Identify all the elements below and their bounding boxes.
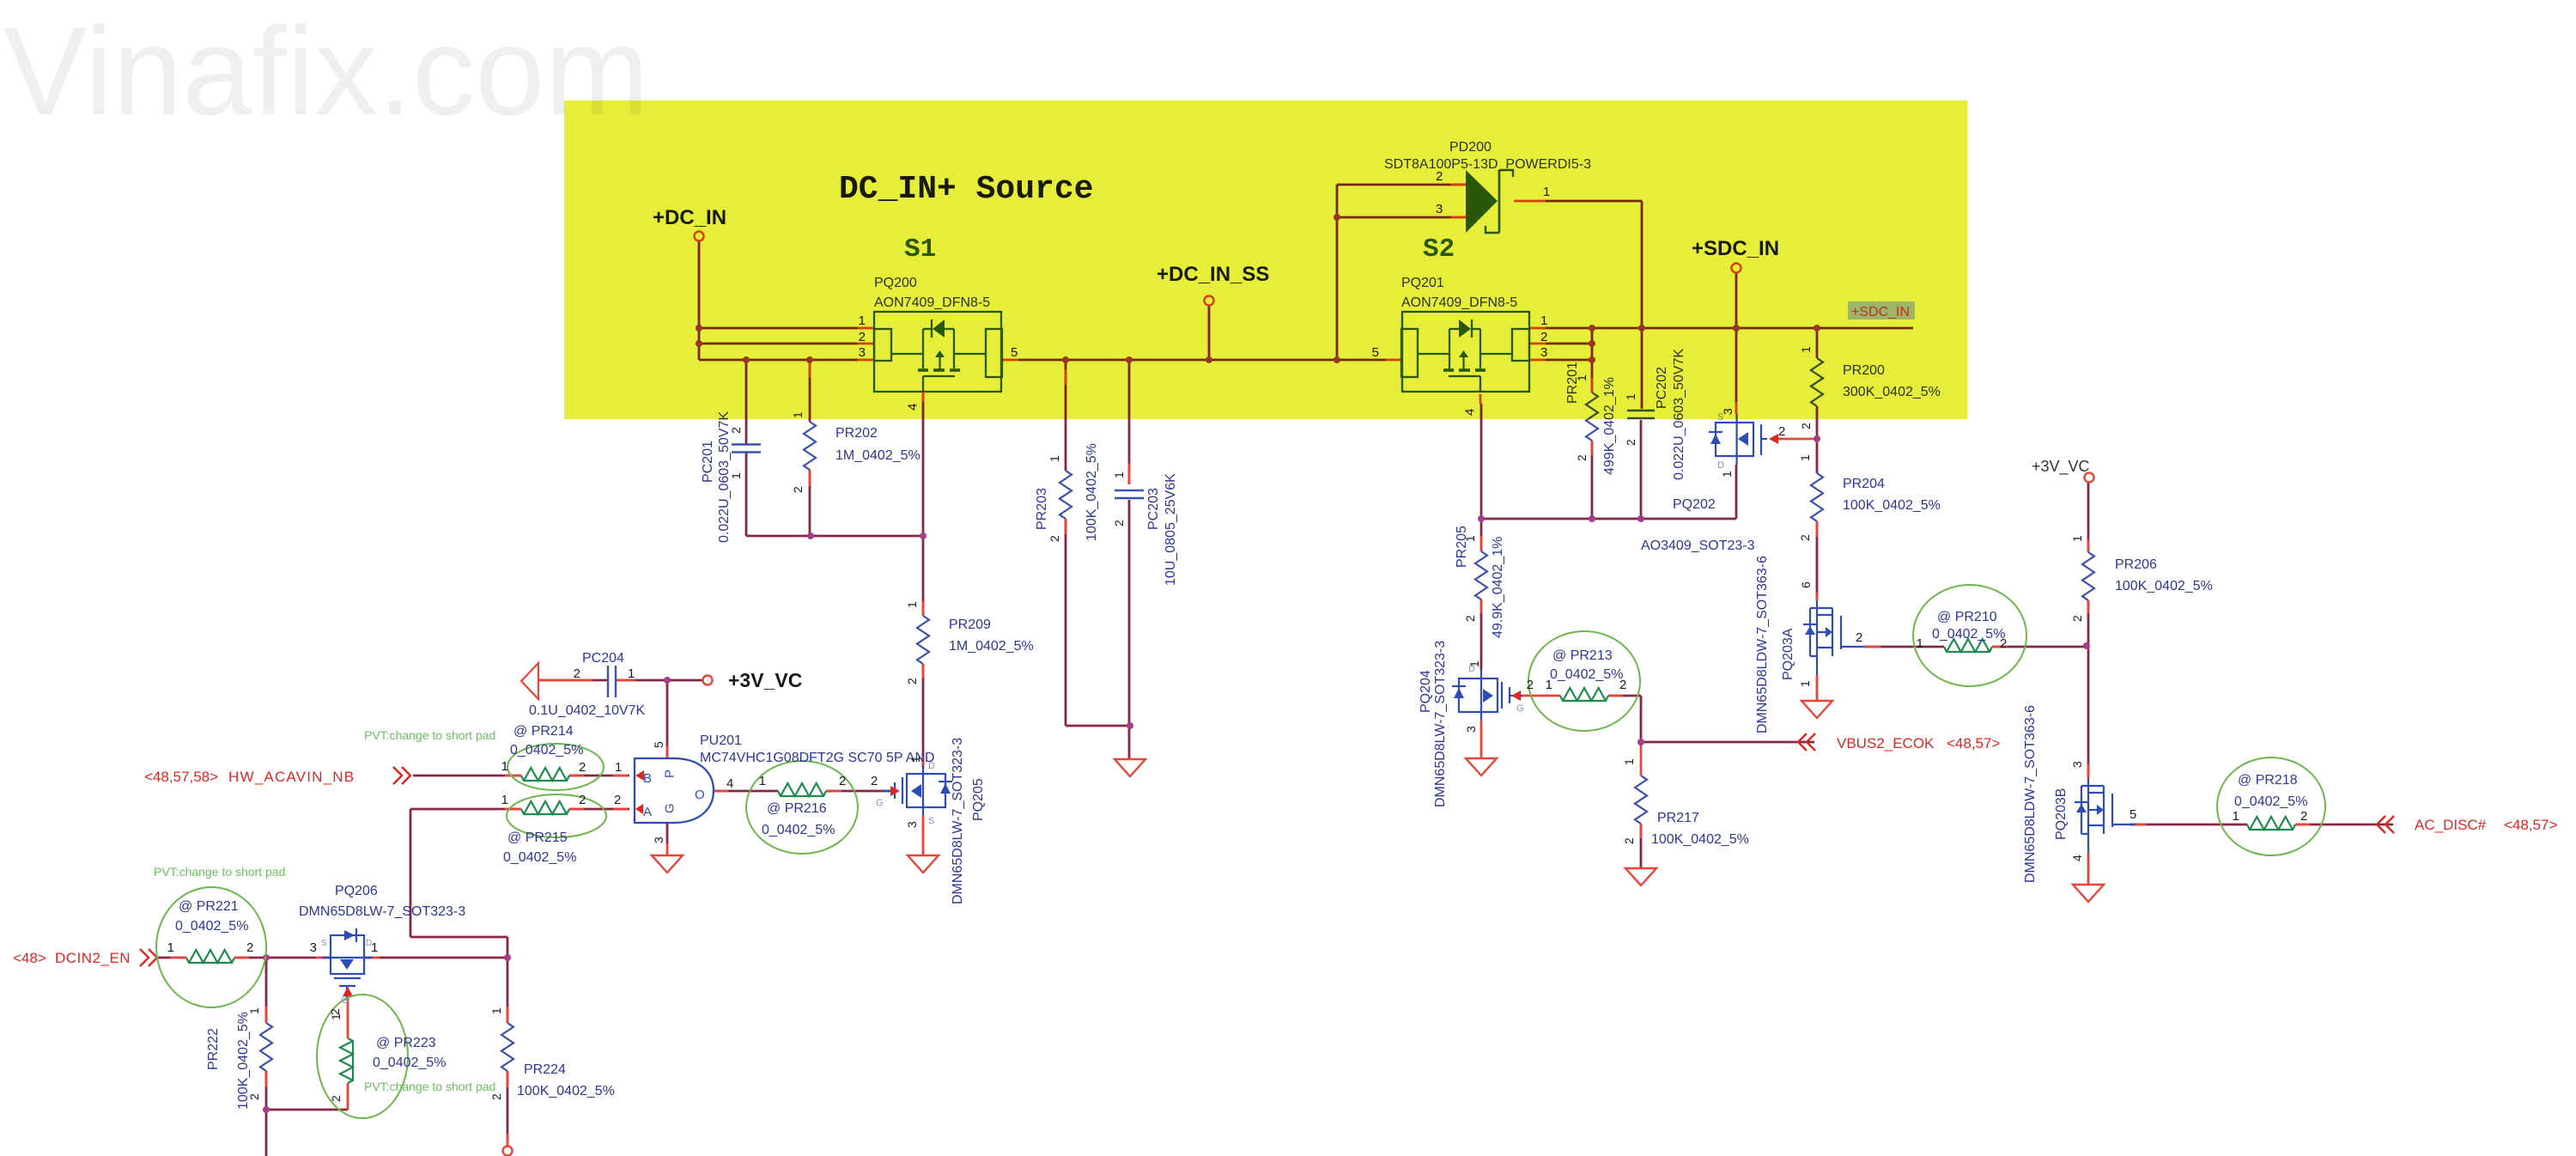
svg-text:PQ206: PQ206	[335, 884, 378, 898]
svg-text:HW_ACAVIN_NB: HW_ACAVIN_NB	[228, 769, 355, 785]
net flag chevron AC_DISC#	[2377, 816, 2394, 833]
svg-text:0_0402_5%: 0_0402_5%	[373, 1056, 446, 1070]
junction at 2116,382	[1814, 325, 1820, 332]
resistor PR201	[1586, 392, 1598, 441]
svg-text:PQ203B: PQ203B	[2054, 788, 2069, 840]
svg-text:100K_0402_5%: 100K_0402_5%	[1651, 832, 1749, 847]
svg-text:PC201: PC201	[701, 441, 715, 483]
wire PQ206 gate to PR223	[347, 991, 349, 1038]
svg-text:D: D	[366, 939, 372, 948]
port bottom PR224	[503, 1147, 513, 1156]
wire PQ201 right pins tie vertical	[1591, 328, 1594, 392]
junction at 814,382	[696, 325, 702, 332]
svg-text:2: 2	[329, 1095, 343, 1102]
svg-text:2: 2	[1527, 678, 1534, 692]
svg-text:5: 5	[2129, 807, 2136, 822]
svg-text:2: 2	[1778, 424, 1785, 439]
svg-text:DMN65D8LDW-7_SOT363-6: DMN65D8LDW-7_SOT363-6	[2023, 705, 2038, 883]
wire PU201 output to PR216	[714, 790, 778, 793]
svg-text:+3V_VC: +3V_VC	[728, 669, 802, 691]
junction at 1557,253	[1334, 214, 1340, 221]
junction at 2116,511	[1814, 435, 1820, 442]
wire PC202 bottom lead	[1640, 420, 1643, 519]
junction at 310,1292	[263, 1106, 270, 1113]
junction at 814,400	[696, 340, 702, 347]
junction at 1911,864	[1637, 739, 1644, 745]
svg-text:0_0402_5%: 0_0402_5%	[762, 823, 835, 837]
svg-text:1: 1	[1112, 472, 1126, 478]
svg-text:1: 1	[167, 940, 174, 955]
pin stub PQ200 pin4	[922, 392, 925, 402]
svg-text:P: P	[662, 770, 677, 778]
svg-text:PQ203A: PQ203A	[1781, 628, 1795, 680]
wire PQ204 source to ground	[1480, 721, 1483, 758]
svg-text:2: 2	[905, 678, 919, 684]
svg-text:DMN65D8LW-7_SOT323-3: DMN65D8LW-7_SOT323-3	[299, 904, 465, 919]
svg-text:S: S	[928, 816, 934, 826]
svg-text:S: S	[321, 939, 327, 948]
svg-text:D: D	[1717, 460, 1724, 471]
resistor PR221 0-ohm	[186, 958, 234, 963]
svg-text:PVT:change to short pad: PVT:change to short pad	[154, 865, 285, 879]
svg-text:2: 2	[839, 774, 846, 788]
svg-text:2: 2	[579, 760, 586, 775]
wire PD200 branch vertical	[1336, 185, 1339, 360]
svg-text:5: 5	[652, 741, 665, 748]
svg-text:100K_0402_5%: 100K_0402_5%	[1084, 443, 1099, 541]
and-gate PU201 MC74VHC1G08DFT2G	[635, 758, 714, 823]
svg-text:1: 1	[905, 601, 919, 608]
svg-text:@ PR216: @ PR216	[767, 801, 827, 816]
svg-text:0_0402_5%: 0_0402_5%	[1932, 627, 2005, 642]
resistor PR205	[1475, 551, 1487, 599]
svg-text:D: D	[928, 761, 935, 771]
svg-text:2: 2	[246, 940, 253, 955]
wire PQ201 pin3	[1529, 359, 1546, 362]
annotation ellipse PR216	[746, 761, 858, 854]
svg-text:<48,57,58>: <48,57,58>	[144, 769, 218, 785]
svg-text:G: G	[876, 798, 884, 808]
wire PD200 pin1 to +SDC_IN line	[1514, 200, 1546, 203]
svg-text:@ PR214: @ PR214	[513, 724, 574, 739]
wire PQ203B source to ground	[2087, 853, 2090, 885]
annotation ellipse PR221	[156, 887, 266, 1007]
net flag chevron DCIN2_EN	[140, 949, 157, 966]
wire PR217 leads	[1640, 742, 1643, 776]
svg-text:G: G	[341, 995, 349, 1006]
svg-text:O: O	[695, 788, 705, 802]
svg-text:1: 1	[329, 1013, 343, 1020]
svg-text:2: 2	[579, 793, 586, 807]
svg-text:1: 1	[1798, 454, 1812, 461]
wire PU201 pin5 riser	[666, 680, 669, 758]
svg-text:PU201: PU201	[700, 733, 742, 748]
wire PR215 to PU201 input A	[569, 808, 629, 811]
pin stubs PQ200 pins 1 2 3	[858, 327, 874, 330]
svg-text:DCIN2_EN: DCIN2_EN	[55, 950, 131, 966]
svg-text:0_0402_5%: 0_0402_5%	[2234, 794, 2307, 809]
svg-text:PR204: PR204	[1843, 477, 1885, 491]
svg-text:2: 2	[1624, 439, 1637, 446]
wire PR203 leads	[1065, 360, 1067, 471]
wire +DC_IN to PQ200 pin2	[699, 343, 858, 345]
wire node to PQ203B drain	[2087, 646, 2090, 778]
svg-text:PVT:change to short pad: PVT:change to short pad	[364, 728, 495, 742]
junction at 1075,624	[920, 532, 927, 539]
svg-text:PR224: PR224	[524, 1062, 566, 1077]
svg-text:Vinafix.com: Vinafix.com	[3, 1, 649, 141]
svg-text:1: 1	[247, 1007, 261, 1014]
gate arrow PQ206	[343, 987, 353, 996]
net flag chevron VBUS2_ECOK	[1798, 733, 1815, 751]
ground PQ204	[1466, 758, 1497, 776]
pin stub PQ201 pin4	[1479, 394, 1482, 404]
svg-text:2: 2	[2300, 809, 2307, 824]
net highlight +SDC_IN flag	[1848, 301, 1915, 319]
wire PQ203A source to ground	[1816, 675, 1819, 701]
svg-text:@ PR221: @ PR221	[179, 899, 239, 914]
svg-text:1: 1	[501, 793, 508, 807]
svg-text:AO3409_SOT23-3: AO3409_SOT23-3	[1641, 538, 1755, 553]
svg-text:1: 1	[501, 759, 508, 774]
svg-text:100K_0402_5%: 100K_0402_5%	[517, 1084, 615, 1098]
svg-text:2: 2	[791, 486, 805, 493]
svg-text:1: 1	[1467, 660, 1481, 667]
wire PR205 leads	[1480, 519, 1483, 551]
svg-text:PC203: PC203	[1146, 488, 1161, 530]
svg-text:3: 3	[310, 940, 317, 955]
svg-text:2: 2	[1575, 454, 1589, 461]
svg-text:1: 1	[1048, 455, 1061, 462]
junction at 869,419	[743, 356, 750, 363]
svg-text:1: 1	[908, 756, 922, 763]
junction at 1911,604	[1637, 515, 1644, 522]
svg-text:2: 2	[1112, 520, 1126, 526]
annotation ellipse PR223	[317, 995, 408, 1118]
svg-text:3: 3	[905, 821, 919, 828]
resistor PR204	[1811, 473, 1823, 521]
svg-text:1: 1	[1546, 678, 1552, 692]
svg-text:1: 1	[2233, 809, 2239, 824]
svg-text:@ PR218: @ PR218	[2238, 773, 2298, 788]
svg-text:PQ202: PQ202	[1673, 497, 1716, 512]
junction at 2022,382	[1733, 325, 1740, 332]
resistor PR202	[804, 422, 816, 470]
port +DC_IN	[695, 232, 704, 241]
ground PQ203A	[1801, 701, 1832, 718]
capacitor PC204 horizontal	[607, 666, 609, 697]
transistor PQ202 AO3409_SOT23-3	[1709, 414, 1767, 465]
svg-text:100K_0402_5%: 100K_0402_5%	[2115, 579, 2213, 593]
junction at 2430,752	[2083, 642, 2090, 649]
wire PR213 gate link	[1521, 695, 1560, 697]
junction at 1725,604	[1478, 515, 1485, 522]
svg-text:2: 2	[1799, 423, 1813, 429]
resistor PR217	[1635, 776, 1647, 824]
annotation ellipse PR213	[1528, 631, 1640, 731]
junction at 1316,845	[1127, 722, 1133, 729]
mosfet PQ201 AON7409_DFN8-5 (mirrored)	[1401, 312, 1529, 392]
svg-text:PC204: PC204	[582, 651, 624, 666]
svg-text:1: 1	[729, 472, 743, 479]
capacitor PC203	[1115, 490, 1144, 491]
svg-text:6: 6	[1799, 581, 1813, 588]
svg-text:+3V_VC: +3V_VC	[2032, 458, 2090, 476]
transistor PQ205 DMN65D8LW-7_SOT323-3	[882, 765, 952, 816]
wire PR204 to PQ203A drain	[1816, 521, 1819, 600]
svg-text:AC_DISC#: AC_DISC#	[2415, 817, 2487, 833]
svg-text:PR206: PR206	[2115, 557, 2157, 572]
wire PR209 chain to PQ205	[922, 536, 925, 616]
svg-text:2: 2	[871, 774, 878, 788]
junction at 1854,400	[1589, 340, 1595, 347]
wire net +SDC_IN horizontal	[1529, 327, 1546, 330]
power arrow PC204 left	[521, 663, 538, 699]
svg-text:3: 3	[652, 837, 665, 843]
svg-text:1: 1	[2070, 535, 2084, 542]
junction at 1315,419	[1126, 356, 1133, 363]
wire PC203 leads and ground drop	[1128, 360, 1131, 484]
svg-text:3: 3	[2070, 761, 2084, 768]
wire +DC_IN_SS port riser	[1208, 306, 1211, 360]
mosfet PQ200 AON7409_DFN8-5	[874, 312, 1002, 392]
diode PD200 SDT8A100P5-13D_POWERDI5-3	[1466, 170, 1498, 233]
svg-text:+SDC_IN: +SDC_IN	[1851, 305, 1910, 319]
junction at 1854,419	[1589, 356, 1595, 363]
svg-text:DMN65D8LDW-7_SOT363-6: DMN65D8LDW-7_SOT363-6	[1755, 556, 1770, 733]
wire +SDC_IN port riser and PQ202 drain	[1735, 273, 1738, 402]
resistor PR213 0-ohm	[1560, 696, 1608, 701]
transistor PQ206 DMN65D8LW-7_SOT323-3	[322, 928, 373, 999]
wire PR206 bottom to node	[2087, 600, 2090, 646]
ground PR203 PC203	[1115, 759, 1145, 776]
svg-text:<48,57>: <48,57>	[2504, 817, 2557, 833]
wire gate node horizontal (PQ201 pin4 line)	[1480, 404, 1483, 519]
svg-text:B: B	[643, 771, 652, 786]
svg-text:G: G	[662, 803, 677, 813]
resistor PR203	[1060, 471, 1072, 519]
wire PR201 leads	[1591, 378, 1594, 392]
svg-text:DMN65D8LW-7_SOT323-3: DMN65D8LW-7_SOT323-3	[951, 738, 965, 904]
wire net S1-S2 (PQ200 pin5 to PQ201 pin5)	[1001, 359, 1018, 362]
resistor PR214 0-ohm	[521, 776, 569, 781]
transistor PQ204 DMN65D8LW-7_SOT323-3	[1452, 670, 1522, 721]
svg-text:PR217: PR217	[1657, 811, 1699, 825]
resistor PR223 0-ohm vertical	[348, 1038, 353, 1083]
resistor PR218 0-ohm	[2247, 824, 2295, 830]
junction at 944,624	[807, 532, 814, 539]
svg-text:2: 2	[1856, 630, 1862, 645]
svg-text:4: 4	[2070, 855, 2084, 861]
svg-text:1M_0402_5%: 1M_0402_5%	[835, 448, 920, 463]
wire PQ201 pin2	[1529, 343, 1546, 345]
annotation ellipse PR218	[2217, 757, 2325, 855]
svg-text:MC74VHC1G08DFT2G SC70 5P AND: MC74VHC1G08DFT2G SC70 5P AND	[700, 751, 935, 765]
input arrow PU201 B	[635, 770, 644, 781]
wire net DCIN2_EN to PR221	[158, 957, 186, 959]
wire PR224 leads	[507, 958, 509, 1023]
svg-text:0.1U_0402_10V7K: 0.1U_0402_10V7K	[529, 703, 646, 718]
svg-text:1: 1	[615, 760, 622, 775]
junction at 1912,382	[1638, 325, 1645, 332]
svg-text:1: 1	[489, 1007, 503, 1014]
svg-text:@ PR215: @ PR215	[507, 830, 568, 845]
wire PD200 pin2	[1337, 184, 1466, 186]
svg-text:2: 2	[1463, 615, 1477, 622]
svg-text:PVT:change to short pad: PVT:change to short pad	[364, 1080, 495, 1093]
yellow highlight region	[564, 100, 1967, 419]
annotation ellipse PR214	[507, 744, 604, 790]
svg-text:1M_0402_5%: 1M_0402_5%	[949, 639, 1034, 654]
svg-text:PR203: PR203	[1035, 488, 1049, 530]
svg-text:2: 2	[489, 1093, 503, 1100]
resistor PR224	[501, 1023, 513, 1071]
ground PQ203B	[2073, 885, 2104, 902]
resistor PR210 0-ohm	[1944, 647, 1992, 652]
svg-text:1: 1	[371, 940, 378, 955]
capacitor PC202	[1640, 408, 1642, 410]
svg-text:10U_0805_25V6K: 10U_0805_25V6K	[1163, 473, 1178, 586]
svg-text:1: 1	[628, 666, 635, 681]
svg-text:DMN65D8LW-7_SOT323-3: DMN65D8LW-7_SOT323-3	[1433, 641, 1448, 807]
junction at 1854,604	[1589, 515, 1595, 522]
wire +3V_VC right riser	[2087, 483, 2090, 552]
annotation ellipse PR210	[1913, 585, 2026, 686]
junction at 943,419	[806, 356, 813, 363]
junction at 310,1115	[263, 954, 270, 961]
ground PU201 pin3	[652, 855, 683, 873]
svg-text:PQ204: PQ204	[1419, 670, 1433, 713]
svg-text:@ PR213: @ PR213	[1552, 648, 1613, 663]
wire PQ205 source to ground	[922, 816, 925, 855]
svg-text:0_0402_5%: 0_0402_5%	[510, 743, 583, 757]
capacitor PC201	[732, 443, 761, 445]
svg-text:4: 4	[726, 776, 733, 791]
port +3V_VC right	[2085, 473, 2094, 483]
svg-text:G: G	[1516, 703, 1524, 714]
wire PQ202 gate to node	[1774, 438, 1817, 441]
svg-text:49.9K_0402_1%: 49.9K_0402_1%	[1491, 537, 1505, 638]
wire PC204 net +3V_VC left	[538, 679, 608, 682]
port +DC_IN_SS	[1205, 296, 1214, 306]
svg-text:PR202: PR202	[835, 426, 878, 441]
svg-text:PR205: PR205	[1455, 526, 1469, 568]
wire PR216 to PQ205 gate	[826, 790, 893, 793]
wire PR222 leads	[265, 958, 268, 1023]
wire net AC_DISC#	[2129, 824, 2247, 826]
svg-text:PQ205: PQ205	[971, 778, 986, 821]
wire PR200-PR204 node	[1816, 328, 1819, 358]
svg-text:1: 1	[1622, 758, 1636, 765]
svg-text:2: 2	[574, 666, 580, 681]
gate arrow PQ202	[1769, 434, 1778, 444]
svg-text:2: 2	[729, 427, 743, 434]
svg-text:2: 2	[1798, 534, 1812, 541]
ground PQ205	[908, 855, 939, 873]
resistor PR215 0-ohm	[521, 809, 569, 814]
junction at 1854,382	[1589, 325, 1595, 332]
svg-text:2: 2	[1619, 678, 1626, 692]
wire +DC_IN to PQ200 pin3	[699, 359, 858, 362]
svg-text:@ PR223: @ PR223	[376, 1036, 436, 1050]
wire PU201 pin3 to ground	[666, 823, 669, 843]
ground PR217	[1625, 868, 1656, 885]
wire net VBUS2_ECOK	[1641, 741, 1814, 744]
port +3V_VC left	[703, 676, 713, 685]
net flag chevron HW_ACAVIN_NB	[393, 767, 410, 784]
resistor PR216 0-ohm	[778, 791, 826, 796]
wire junction to PQ206 source	[266, 957, 331, 959]
svg-text:@ PR210: @ PR210	[1937, 610, 1997, 624]
junction at 591,1115	[504, 954, 511, 961]
svg-text:3: 3	[1464, 726, 1478, 733]
annotation ellipse PR215	[507, 794, 606, 837]
wire net HW_ACAVIN_NB to PR214	[413, 775, 521, 777]
wire input A riser	[410, 809, 412, 937]
svg-text:0_0402_5%: 0_0402_5%	[503, 850, 576, 865]
svg-text:1: 1	[1720, 471, 1734, 478]
svg-text:2: 2	[2070, 615, 2084, 622]
svg-text:PR222: PR222	[206, 1028, 221, 1070]
wire net PR210 link (PQ203A gate to PR206 node)	[1864, 646, 1944, 648]
port +SDC_IN	[1732, 264, 1741, 273]
input arrow PU201 A	[635, 804, 643, 814]
svg-text:<48,57>: <48,57>	[1947, 735, 2000, 751]
resistor PR200	[1811, 358, 1823, 406]
svg-text:<48>: <48>	[13, 950, 46, 966]
transistor PQ203A DMN65D8LDW-7_SOT363-6	[1803, 600, 1864, 675]
wire PQ200 pin4 vertical	[922, 392, 925, 402]
junction at 1557,419	[1334, 356, 1340, 363]
svg-text:2: 2	[247, 1093, 261, 1100]
svg-text:0_0402_5%: 0_0402_5%	[175, 919, 248, 934]
svg-text:0_0402_5%: 0_0402_5%	[1550, 667, 1623, 682]
gate arrow PQ204	[1511, 691, 1521, 701]
wire riser to PR215	[410, 808, 521, 811]
svg-text:1: 1	[1798, 680, 1812, 687]
svg-text:1: 1	[1463, 535, 1477, 542]
svg-text:A: A	[643, 805, 652, 819]
svg-text:VBUS2_ECOK: VBUS2_ECOK	[1837, 735, 1935, 751]
wire net +DC_IN vertical from port	[698, 241, 701, 360]
svg-text:1: 1	[759, 774, 766, 788]
wire PR214 to PU201 input B	[569, 775, 629, 777]
wire PR221 to junction	[234, 957, 266, 959]
svg-text:PR209: PR209	[949, 618, 991, 632]
resistor PR222	[260, 1023, 272, 1071]
svg-text:2: 2	[1048, 535, 1061, 542]
wire PQ206 drain to node	[364, 957, 507, 959]
junction at 1241,419	[1062, 356, 1069, 363]
gate arrow PQ205	[890, 786, 900, 796]
svg-text:2: 2	[2000, 636, 2007, 651]
junction at 777,792	[664, 677, 671, 684]
wire PR222 PR223 bottom link	[266, 1109, 348, 1111]
svg-text:2: 2	[1622, 837, 1636, 844]
wire PC201 PR202 bottom join to PQ200 pin4	[745, 360, 748, 444]
resistor PR209	[917, 616, 929, 664]
transistor PQ203B DMN65D8LDW-7_SOT363-6	[2075, 778, 2136, 853]
wire PD200 pin3	[1337, 216, 1466, 219]
svg-text:1: 1	[1917, 636, 1923, 651]
junction at 1408,419	[1206, 356, 1212, 363]
svg-text:100K_0402_5%: 100K_0402_5%	[1843, 498, 1941, 513]
svg-text:2: 2	[614, 793, 621, 807]
wire +DC_IN to PQ200 pin1	[699, 327, 858, 330]
resistor PR206	[2082, 552, 2094, 600]
